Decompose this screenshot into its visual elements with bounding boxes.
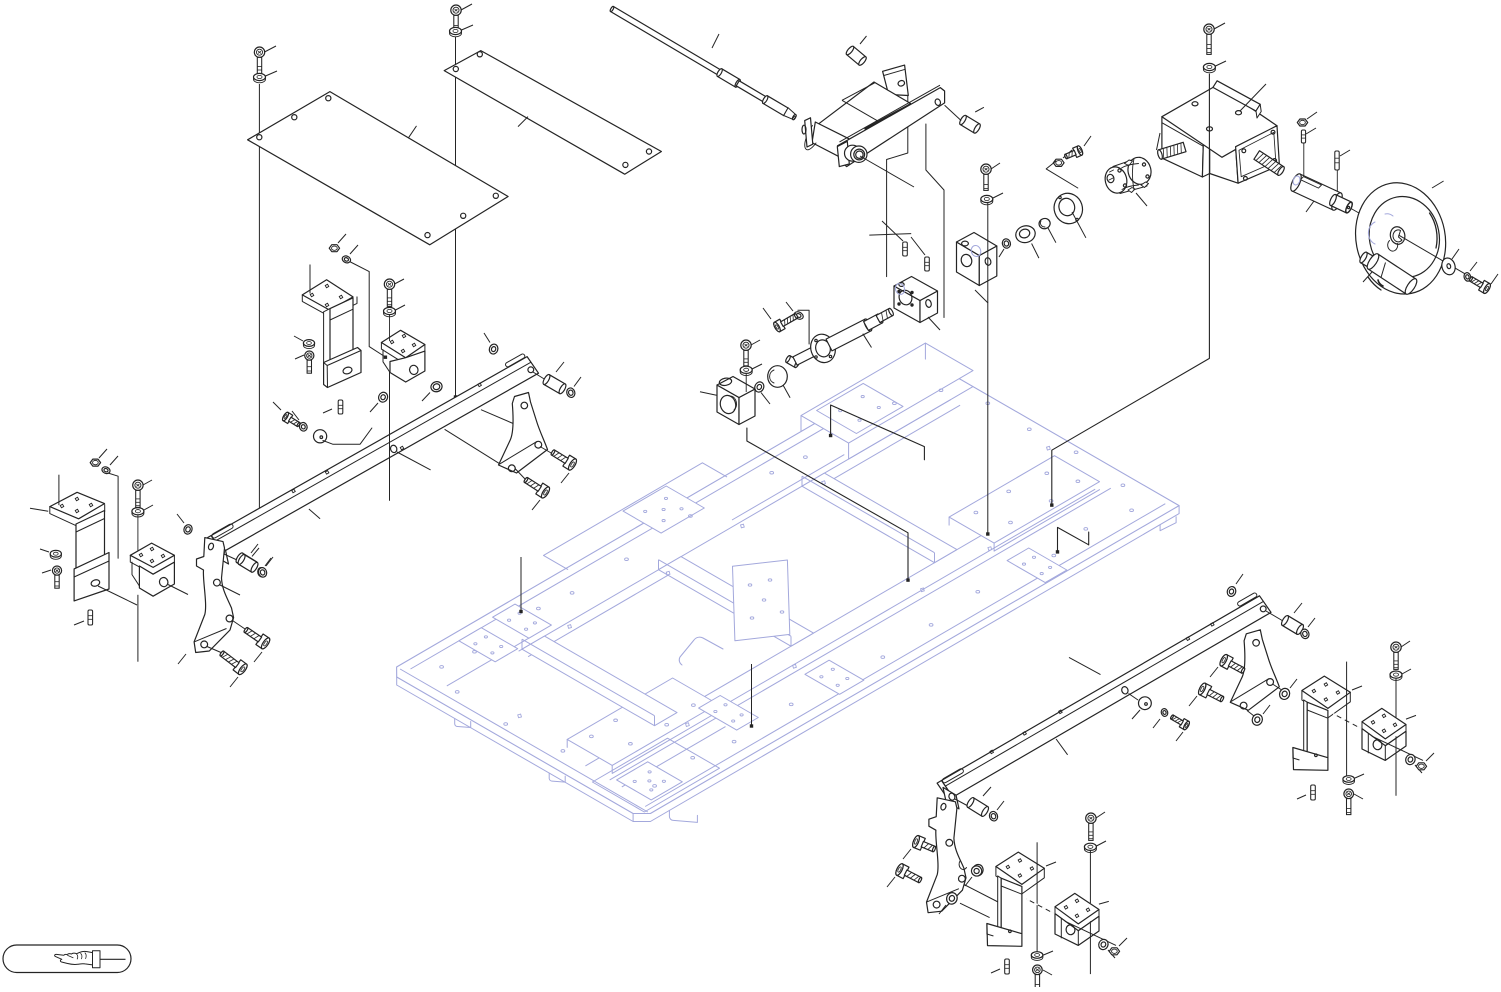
arm bolt 1 axis [540,447,552,454]
rail 1 washer R [566,387,577,399]
leadscrew barrel [826,318,873,351]
Q2 washer top [1084,843,1096,852]
plate inner rim bottom [645,504,1165,807]
spring washer leader [1470,262,1477,271]
I3 pin washer [257,567,268,579]
set pin sp2 [925,257,930,271]
rail 2 left slot [942,768,965,784]
wheel blue mark [1368,214,1393,244]
leadscrew thread [876,308,894,323]
plate square hole [518,714,522,718]
D4 leader [783,385,790,398]
raised block walls [801,343,973,459]
right arm bolt 1 [550,449,578,471]
corner platform S pad [617,762,683,800]
washer R leader [574,377,581,387]
rail2 screw leader [1176,732,1183,741]
r2 bolt1 leader [903,849,911,859]
right platform [949,456,1099,543]
rail 2 small washer [1160,708,1168,717]
R1 pin leader [1297,795,1306,799]
plate hole [804,456,808,459]
block Q2 [1055,893,1099,945]
I3 leader e [178,654,186,664]
rail 1 square hole [325,471,329,475]
plate band accent [715,489,1095,710]
hex nut HW [1297,119,1307,126]
I3 bolt 2 [219,650,248,675]
gearbox rear flange [1213,81,1261,118]
cap ring leader [1048,228,1056,243]
screw B line end [454,395,457,398]
hub axis line [1351,209,1394,234]
sleeve hub [1328,194,1353,214]
plate long band upper edge [585,474,1086,766]
rail 2 pin R axis [1266,611,1283,621]
cross bar right [802,473,957,563]
R1 screw low [1344,789,1354,815]
handle leader [1363,272,1372,282]
carriage front plate [837,141,849,166]
rounded slot [679,637,723,665]
bolt B1 [1064,145,1084,159]
gearbox left band [1162,123,1204,147]
rail 1 left slot [211,523,234,539]
R2 axis line [1372,736,1423,760]
bracket I1 body [76,511,105,586]
cover plate 1 hole [292,115,297,120]
J2 guide line [389,315,391,501]
right arm bolt 2 [523,477,551,499]
screw G leader [1214,23,1225,29]
plate hole [689,515,693,518]
Wb leader [422,393,430,402]
cross bar mid top edge [659,560,792,647]
disc zigzag leader [323,428,372,444]
sp1 leader [882,221,903,241]
base plate outline [397,359,1180,813]
R2 nut leader [1426,753,1434,761]
plate hole [1121,484,1125,487]
bracket J1 body [324,298,353,368]
plate hole [691,756,695,759]
J2 leg [383,350,390,373]
K1 front hole [718,394,738,416]
nut HW leader [1307,112,1317,119]
wheel screw [1469,276,1492,294]
rail 2 washer R [1300,628,1311,640]
shaft sleeve [1289,172,1345,211]
block R2 [1362,708,1406,760]
disc D4 [768,366,788,388]
washer K1 [740,366,752,375]
Q2 leader [1099,901,1109,904]
drive shaft [610,6,797,120]
Q1 axis line [960,903,990,917]
J1 guide line [309,265,311,294]
carriage rear wing [883,65,909,95]
r2 washer b [945,891,959,906]
screw K1 leader [751,340,760,345]
washer A leader [266,71,278,76]
guide line C3 [987,203,989,533]
I3 bolt 2 axis [207,647,221,653]
J2 washer Wb [430,380,444,393]
I1 pin leader [74,621,84,625]
small ring [1001,238,1011,249]
K1 leader [700,392,717,396]
standing plate hole [780,611,784,613]
foot tab E [1160,517,1176,531]
I2 guide line [137,515,139,662]
plate square hole [686,723,690,727]
I2 washer2 [101,466,111,475]
Q2 washer leader [1108,950,1115,958]
Q1 pin leader [991,969,1000,973]
plate hole [789,703,793,706]
J1 plate holes [310,284,343,307]
right platform holes [974,472,1080,524]
wheel axis line [1398,235,1489,288]
J1 cap screw [305,351,314,373]
sleeve blue mark [1292,175,1301,186]
cap ring [1038,217,1052,230]
R2 washer top [1390,671,1402,680]
carriage roller [805,122,854,161]
I2 cap screw [133,480,143,507]
J1 hex nut [329,245,339,252]
plate hole [770,471,774,474]
pin HWa line [1303,143,1305,181]
rail 1 end tab [213,543,229,565]
rail 2 disc [1139,697,1152,710]
J2 washer leader [396,305,406,310]
gearbox top holes [1192,102,1242,131]
I1 washer leader [40,549,49,552]
W3 leaders [786,302,809,344]
washer L leader [265,558,271,566]
bracket I1 foot [74,553,109,601]
Z1 end [829,434,832,437]
cross bar left [522,636,677,726]
Q1 guide line [1036,842,1038,954]
handle neck [1358,251,1377,269]
left platform wall [567,712,717,773]
B3 blue mark [970,244,982,257]
plate square hole [666,571,670,575]
arm bolt 1 leader [561,473,569,483]
rail 2 leader tick b [1056,739,1068,755]
B4 leader [763,308,771,319]
set pin sp1 [903,242,908,256]
carriage pin P1 [845,45,868,66]
Q2 guide line [1089,850,1091,974]
r2r bolt1 leader [1210,667,1218,677]
bearing block K2 [894,277,938,323]
rear wing hole [897,80,905,87]
cover plate 2 hole [646,149,651,154]
coupling [1102,155,1153,196]
R2 cap screw [1391,642,1401,669]
gearbox top face [1162,85,1277,157]
gearbox right plate [1236,126,1280,184]
rail 1 leader tick b [445,429,501,464]
cover plate 2 leader [518,117,528,127]
carriage bushing [845,145,868,162]
plate square hole [793,664,797,668]
gearbox lower mid face [1210,135,1238,183]
R1 guide line [1346,662,1348,776]
rail 2 washer top [1226,585,1237,597]
base plate bottom thickness [397,506,1179,822]
pin P2 axis [945,105,962,120]
r2 arm bolt 2 [894,863,922,883]
screw B leader [461,4,472,10]
plate hole [537,607,541,610]
rail 2 mid hole [1121,686,1129,695]
wheel washer [1440,256,1457,276]
cap screw G [1204,24,1214,54]
washer B [450,27,462,36]
pad5 leader [750,664,753,728]
bracket I1 top plate [50,492,105,527]
I3 pin washer leader [266,557,273,566]
wheel screw leader [1491,274,1498,284]
cap screw B [451,5,461,31]
rail bolt leader [273,402,281,410]
handwheel hub [1389,225,1407,245]
cross bar left top edge [522,639,655,726]
I3 bolt 1 axis [233,621,246,630]
gearbox mid face [1202,135,1209,177]
small ring leader [999,249,1004,257]
plate leader zz [1056,527,1089,553]
small washer leader [1153,719,1160,728]
R1 washer leader [1355,774,1364,778]
plate square hole [988,547,992,551]
plate edge protrusion [544,463,727,570]
washer C3 leader [993,193,1003,198]
I1 plate holes [60,497,93,513]
rail 1 leader tick c [481,410,520,427]
bearing flange FD [1050,190,1086,228]
r2 washer b leader [939,905,946,914]
handwheel rim [1346,175,1455,302]
cover plate 1 [248,92,509,245]
r2r axis [1247,684,1281,716]
rail2 pin L leader [983,787,991,796]
cover plate 1 hole [461,213,466,218]
Q2 washer [1097,938,1109,951]
screw A leader [265,46,277,52]
K1 screw line [745,374,747,392]
rail 2 pin R [1280,615,1305,636]
screw B guide line [455,37,457,396]
plate square hole [921,588,925,592]
rail 1 washer top [488,343,499,355]
K1 top hole [719,377,732,386]
rail 1 washer L [257,566,268,578]
rail 2 leader tick a [1069,657,1101,674]
I3 bolt 1 leader [254,652,262,662]
R2 hex nut [1416,763,1426,770]
J1 screw leader [295,355,304,359]
bracket I3 arm [194,538,234,653]
pad1 leader Z1 [831,405,925,460]
left platform holes [590,703,696,745]
rail 2 right arm [1230,630,1279,711]
rail 1 square hole [292,489,296,493]
pad3 leader [519,557,522,613]
screw A guide line [258,84,260,510]
Q1 set pin [1005,959,1010,974]
carriage front bar [838,85,945,166]
r2r washer a [1278,687,1291,701]
cover plate 2 hole [477,52,482,57]
cap screw A [254,47,264,75]
spring washer [1463,272,1472,282]
bracket I2 top plate [130,543,174,574]
coupling leader [1136,133,1160,206]
rail 2 pin L [966,797,990,818]
I1 set pin [88,610,93,625]
rail 2 pin L axis [955,799,968,806]
cross bar mid [659,557,814,647]
rail 1 right slot [505,353,526,367]
block B3 [957,233,997,286]
carriage left plate [802,118,813,147]
Wa leader [370,403,378,412]
pin HWa leader [1306,128,1316,134]
plate hole [929,624,933,627]
washer A [254,73,266,82]
handle grip [1365,252,1419,296]
R2 washer leader [1415,765,1422,773]
bracket I2 body [139,562,174,596]
R2 washer [1404,753,1416,766]
leadscrew flange [807,331,839,366]
R dashed line [1333,714,1360,728]
pin HWb line [1336,170,1338,196]
corner platform S [592,738,719,812]
handwheel rim accent [1368,213,1437,290]
set pin HWa [1301,130,1305,143]
plate hole [570,592,574,595]
hub spiral [1388,241,1398,252]
plate left rim [400,669,648,812]
front bar hole [934,98,941,106]
standing plate hole [768,579,772,581]
pointing hand icon [55,951,100,968]
r2r bolt2 leader [1189,696,1197,706]
dowel pin HWb [1335,151,1339,170]
pin P2 leader [975,107,984,112]
washer leader [1452,249,1459,259]
plate square hole [822,481,826,485]
bushing leader [1032,244,1039,259]
Q2 nut leader [1119,938,1127,946]
I1 leader a [30,508,48,511]
arm bolt 2 axis [515,469,526,480]
washer W3 [793,310,805,321]
I3 bolt 1 [243,627,271,650]
R1 washer low [1343,776,1355,785]
R2 guide line [1395,678,1397,796]
Q2 axis line [1065,921,1116,945]
rail 2 square hole [1023,732,1027,736]
rail2 washer top leader [1236,574,1243,584]
plate hole [1027,428,1031,431]
carriage guide line L1 [887,96,908,277]
rail 1 leader tick a [309,509,320,519]
r2r bolt 2 [1197,682,1224,702]
block K1 [717,377,755,425]
plate long band lower edge [610,488,1111,780]
drive shaft leader [712,34,719,48]
right plate holes [1242,130,1277,180]
plate inner rim top [411,367,929,669]
pad on raised block [817,383,903,433]
B3 leader [975,290,988,303]
sp2 leader [911,237,925,255]
plate hole [1130,509,1134,512]
r2 axis line [964,885,1000,904]
plate hole [1052,554,1056,557]
rail 1 right end hole [528,367,534,373]
r2r bolt 1 [1218,653,1245,673]
gearbox leader tick [1240,84,1266,111]
rail 2 square hole [1186,637,1190,641]
plate hole [893,402,897,405]
rail 2 left arm [927,798,967,913]
stamp pill [3,945,131,973]
rail 2 washer L [988,810,999,822]
hex nut N1 [1053,159,1064,166]
right platform wall [949,490,1099,551]
plate rim top partial [447,455,845,686]
washer left of Q1 [970,864,983,877]
set pin leader bar [869,234,911,236]
bracket J2 body [390,351,425,382]
R1 leader [1352,686,1362,690]
rail 1 square hole [400,446,404,450]
FD leader [1072,212,1086,238]
plate hole [473,651,477,654]
rail 2 right end hole [1260,606,1266,612]
r2 washer a leader [965,877,972,886]
I3 bolt 2 leader [230,677,238,687]
I2 washer2 leader [110,456,118,465]
leadscrew end cap [785,355,800,368]
wheel leader [1432,181,1444,188]
carriage gap shadow [865,104,911,129]
I2 hex nut [90,459,100,466]
J1 washer [341,255,352,265]
W4 leader [761,393,770,405]
I2 L leader [108,473,118,558]
washer K1 leader [752,364,762,369]
rail 2 square hole [1059,710,1063,714]
I2 axis line [98,585,188,606]
K2 front dots [898,290,913,306]
r2r washer b leader [1263,705,1270,714]
foot tab b [549,773,565,782]
cover plate 2 hole [623,162,628,167]
bracket J1 foot [324,348,361,388]
I3 washer [182,523,193,535]
cap screw K1 [741,340,751,367]
Q dashed line [1026,899,1053,913]
